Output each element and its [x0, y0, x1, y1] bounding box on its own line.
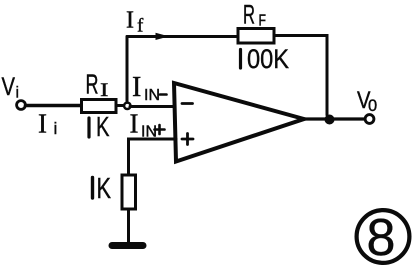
label Ii [38, 109, 57, 139]
wire junction to inverting input [130, 105, 175, 108]
current arrow If [156, 33, 170, 40]
svg-text:IN: IN [141, 124, 157, 141]
svg-text:f: f [137, 16, 144, 37]
svg-text:V: V [2, 73, 16, 101]
svg-text:0: 0 [368, 97, 377, 115]
svg-text:R: R [86, 69, 99, 100]
svg-text:i: i [16, 85, 20, 102]
label 100K [239, 50, 242, 69]
label If [126, 8, 144, 37]
svg-text:R: R [243, 0, 255, 30]
wire opamp output to node [304, 117, 326, 120]
svg-text:00K: 00K [247, 44, 289, 74]
svg-text:i: i [54, 119, 58, 138]
resistor RF [238, 29, 274, 44]
wire 1K to ground [127, 209, 130, 242]
op-amp U1 [174, 83, 304, 162]
svg-text:8: 8 [367, 209, 396, 267]
svg-text:F: F [259, 13, 267, 30]
svg-text:K: K [97, 173, 112, 205]
svg-text:K: K [96, 111, 110, 142]
terminal Vi [17, 101, 26, 110]
wire top feedback horizontal [127, 35, 238, 38]
wire RF to output corner [274, 36, 327, 116]
label 1K [87, 118, 90, 137]
svg-text:I: I [132, 72, 141, 103]
svg-text:I: I [130, 109, 139, 139]
resistor RI [82, 100, 117, 113]
label RF [243, 0, 266, 30]
svg-text:I: I [38, 109, 47, 139]
label Vi [2, 73, 20, 102]
node output junction [325, 115, 335, 125]
wire input to RI [26, 104, 82, 108]
ground [112, 242, 143, 249]
figure number 8 [357, 210, 410, 263]
svg-text:I: I [126, 8, 134, 34]
wire noninverting input [129, 139, 177, 175]
terminal V0 [365, 115, 374, 124]
label RI [86, 69, 109, 102]
svg-text:I: I [100, 80, 109, 101]
resistor 1K to ground [122, 175, 136, 209]
wire junction up to feedback [126, 37, 129, 103]
wire RI to junction [116, 104, 124, 107]
label IIN+ [130, 109, 158, 141]
node IIN- junction [124, 103, 130, 109]
label 1K [91, 178, 94, 199]
wire node to terminal [334, 117, 364, 120]
label IIN- [132, 72, 160, 104]
svg-text:IN: IN [144, 87, 160, 104]
label V0 [357, 87, 377, 115]
